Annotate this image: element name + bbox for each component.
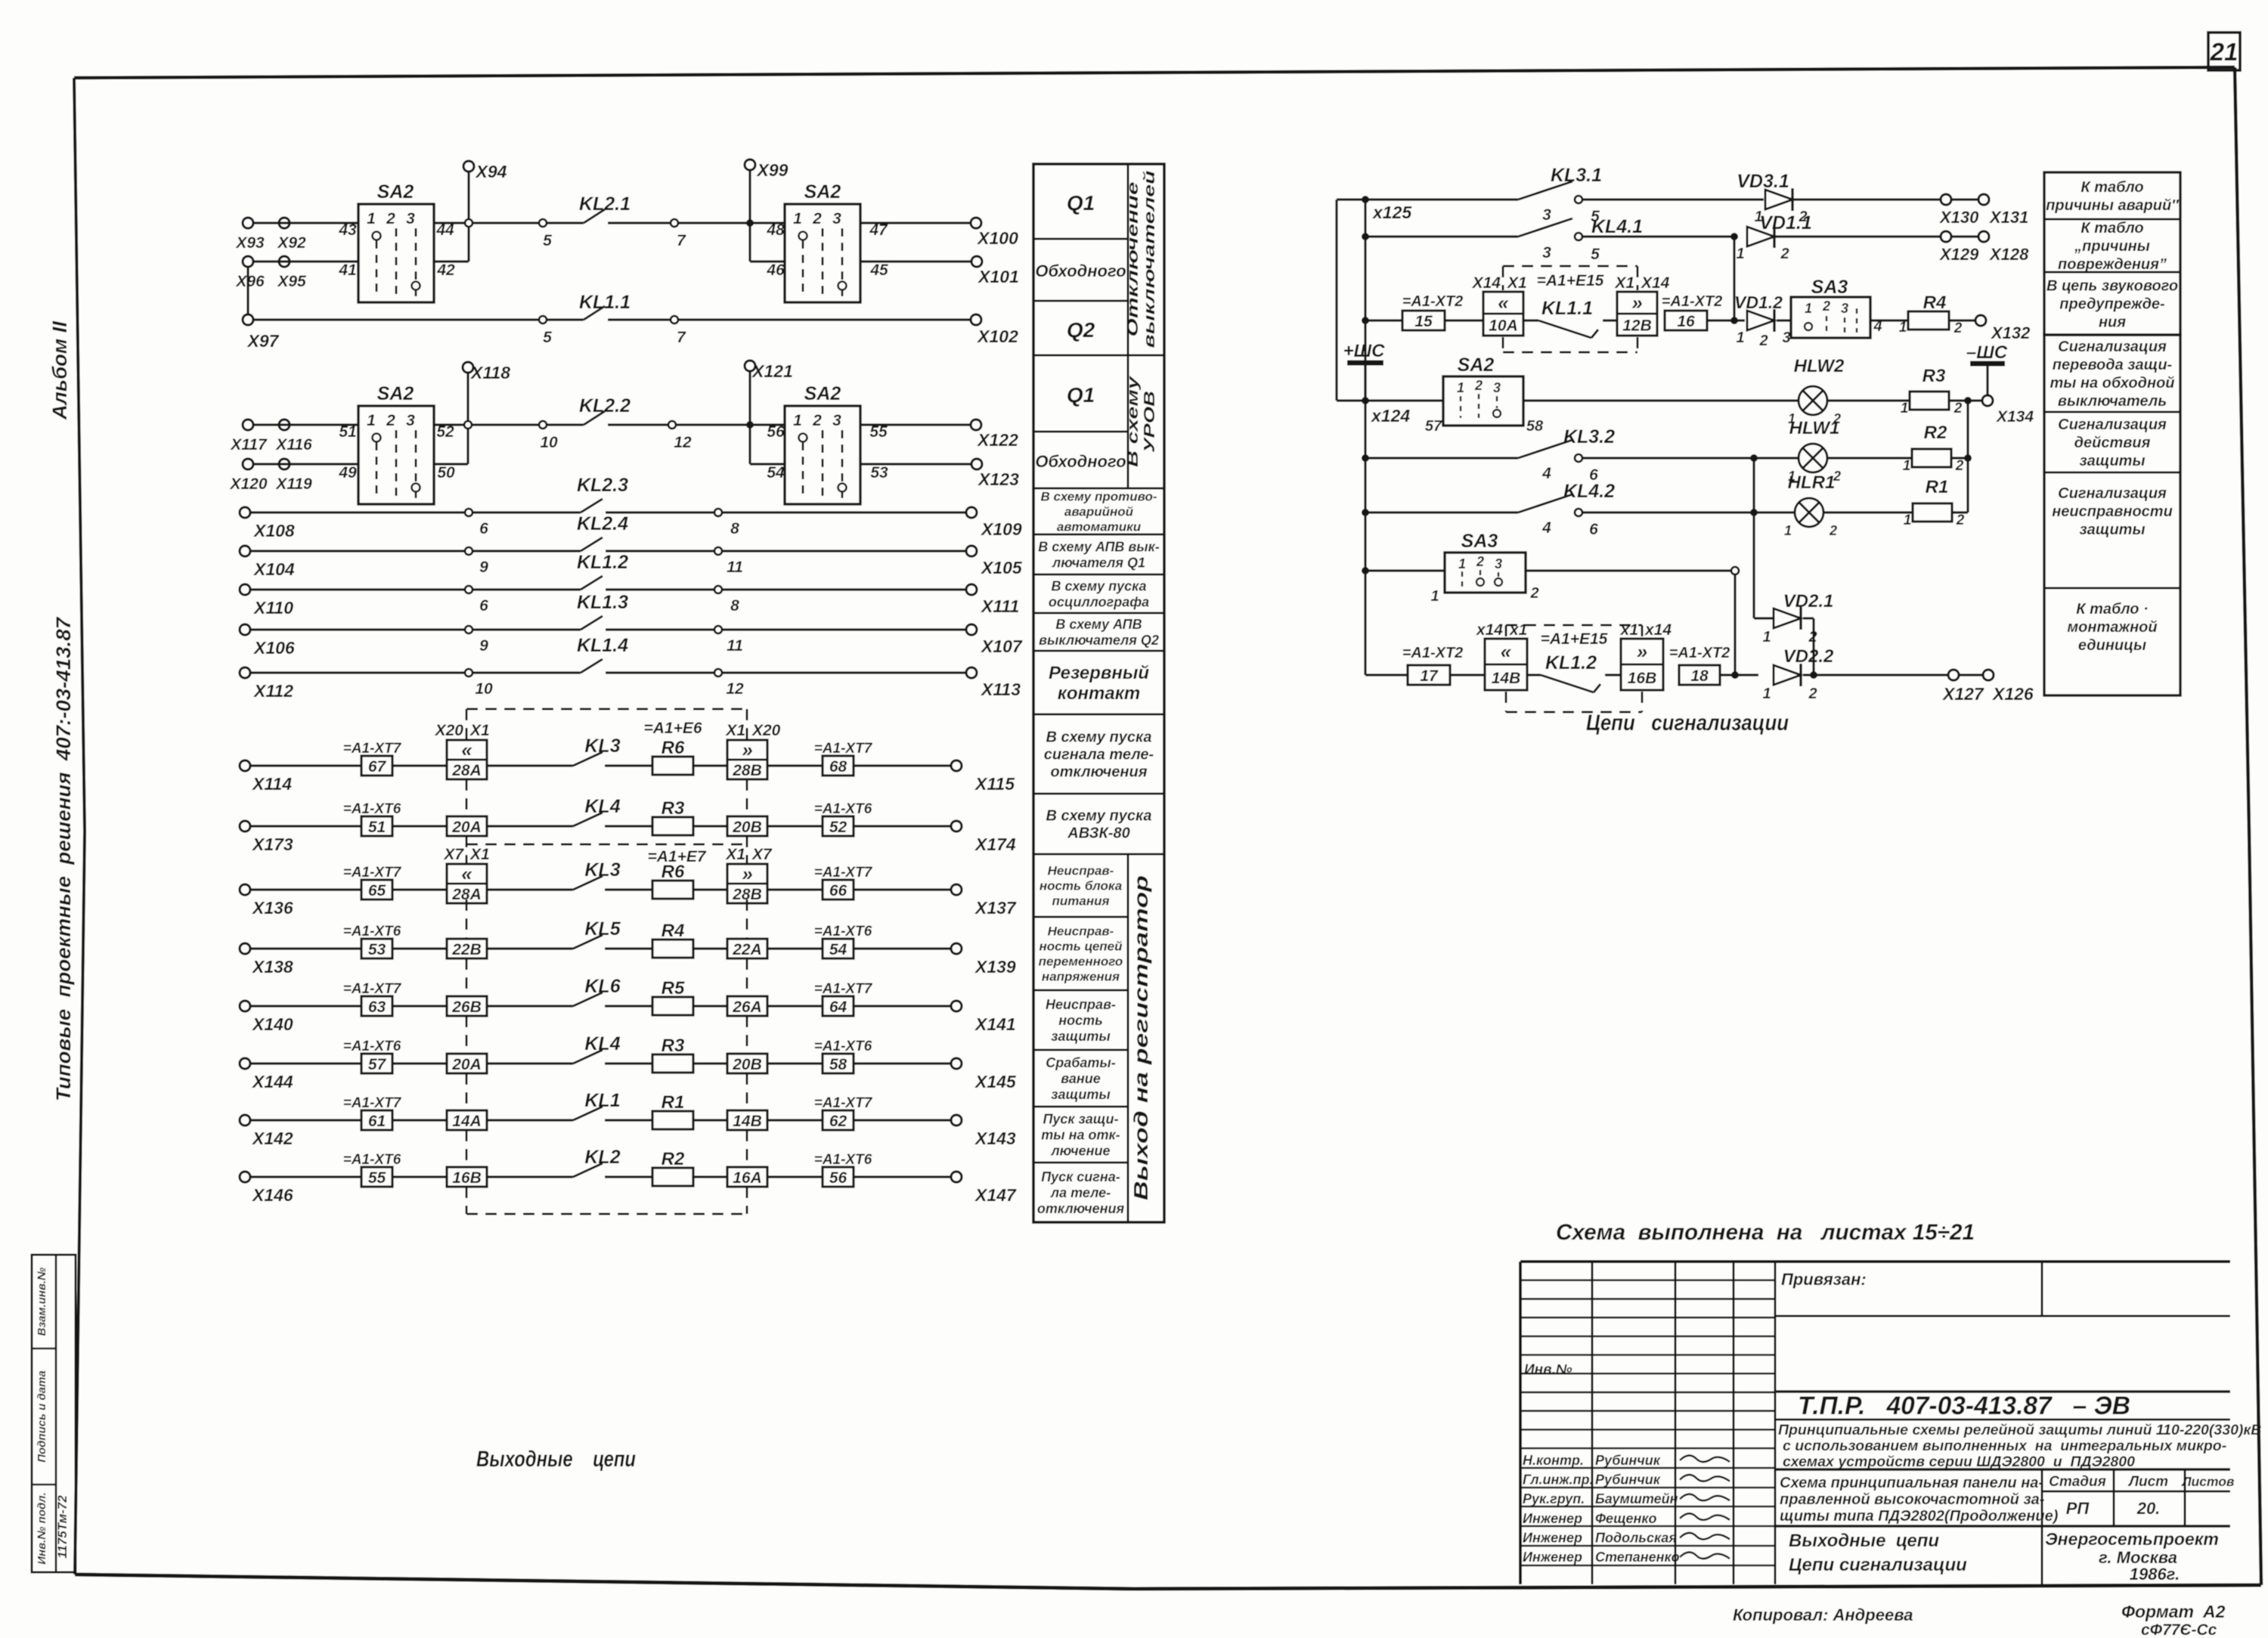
svg-text:4: 4	[1541, 519, 1551, 537]
svg-text:1: 1	[793, 210, 802, 228]
dashed link between 28A and 20A	[466, 779, 747, 816]
wire to tag 64	[767, 1005, 823, 1007]
svg-text:X145: X145	[974, 1072, 1017, 1091]
svg-text:неисправности: неисправности	[2052, 503, 2173, 520]
contact KL2.3	[465, 475, 739, 537]
svg-text:KL2.2: KL2.2	[579, 395, 631, 416]
terminal X126	[1941, 670, 2034, 704]
svg-text:2: 2	[1955, 458, 1964, 474]
svg-text:X7: X7	[751, 846, 773, 863]
svg-text:R4: R4	[661, 921, 685, 941]
svg-text:17: 17	[1420, 667, 1439, 685]
wire VD2.1 branch	[1754, 458, 1773, 618]
svg-text:=A1-XT7: =A1-XT7	[343, 741, 402, 757]
tag label =A1-XT7 65	[343, 865, 402, 900]
wire contact to X111	[722, 588, 966, 590]
svg-text:1: 1	[367, 210, 376, 228]
contact KL4	[573, 1033, 621, 1064]
svg-text:ность блока: ность блока	[1039, 878, 1122, 893]
svg-text:9: 9	[479, 637, 488, 655]
footer stamp	[2141, 1621, 2217, 1638]
diode VD1.1	[1736, 212, 1811, 262]
wire resistor to tag 20B	[693, 825, 727, 827]
connector tag 16A	[727, 1167, 767, 1187]
svg-text:X99: X99	[756, 160, 789, 180]
resistor R6	[652, 862, 693, 899]
svg-text:Рубинчик: Рубинчик	[1595, 1472, 1661, 1488]
svg-text:58: 58	[829, 1056, 847, 1073]
terminal X119	[275, 459, 312, 493]
contact KL3	[573, 859, 621, 890]
svg-text:7: 7	[677, 329, 686, 346]
svg-text:20.: 20.	[2136, 1499, 2161, 1518]
svg-text:В схему противо-: В схему противо-	[1040, 489, 1157, 503]
wire to connector 14B	[1450, 673, 1485, 676]
wire contact to X102	[678, 318, 971, 320]
wire to tag 54	[767, 947, 823, 949]
wire to contact KL4	[487, 825, 573, 827]
svg-text:защиты: защиты	[2079, 522, 2145, 538]
svg-text:Инженер: Инженер	[1523, 1530, 1582, 1545]
svg-text:KL2.4: KL2.4	[577, 513, 628, 534]
svg-text:52: 52	[829, 819, 847, 836]
svg-text:предупрежде-: предупрежде-	[2059, 296, 2165, 313]
wire R2 to chain	[1951, 457, 1968, 459]
wire contact to HLR1	[1583, 511, 1795, 513]
svg-text:–ШС: –ШС	[1966, 342, 2008, 363]
svg-text:монтажной: монтажной	[2067, 619, 2157, 636]
svg-text:осциллографа: осциллографа	[1049, 594, 1149, 609]
terminal X100	[971, 218, 1018, 248]
node VD2.1 branch crossing	[1750, 509, 1758, 516]
connector tag 14B with arrow	[1476, 621, 1527, 690]
svg-text:X118: X118	[469, 363, 510, 382]
wire tag18 to VD2.2	[1720, 673, 1758, 676]
svg-text:2: 2	[1954, 320, 1963, 336]
svg-text:1: 1	[367, 412, 376, 429]
connector tag 22A	[727, 939, 767, 958]
connector tag 28B with arrow	[725, 846, 773, 903]
svg-text:ность цепей: ность цепей	[1039, 939, 1123, 953]
wire resistor to tag 16A	[693, 1175, 727, 1178]
wire X117 to SA2	[253, 423, 358, 426]
connector tag 26B	[447, 996, 487, 1016]
svg-text:SA3: SA3	[1811, 277, 1848, 298]
svg-text:Гл.инж.пр.: Гл.инж.пр.	[1523, 1472, 1594, 1488]
svg-text:=A1+E15: =A1+E15	[1541, 630, 1608, 648]
terminal X147	[951, 1172, 1017, 1205]
wire R4 to X132	[1949, 319, 1975, 321]
svg-text:1175Тм-72: 1175Тм-72	[55, 1495, 70, 1559]
terminal X110	[240, 584, 293, 618]
svg-text:схемах устройств серии ШДЭ2800: схемах устройств серии ШДЭ2800 и ПДЭ2800	[1783, 1454, 2135, 1470]
terminal X127	[1948, 670, 1959, 680]
svg-text:12: 12	[674, 434, 692, 451]
wire to contact KL3	[487, 764, 573, 766]
svg-text:Энергосетьпроект: Энергосетьпроект	[2045, 1529, 2219, 1549]
svg-text:X129: X129	[1938, 245, 1979, 264]
terminal X140	[240, 1001, 293, 1034]
svg-text:Формат: Формат	[2121, 1602, 2194, 1621]
wire to contact KL5	[487, 947, 573, 949]
svg-text:X147: X147	[974, 1185, 1017, 1205]
terminal X128	[1938, 231, 2029, 264]
contact KL1.4	[465, 635, 744, 698]
svg-text:X138: X138	[251, 957, 293, 977]
svg-text:KL1.4: KL1.4	[577, 635, 628, 656]
wire resistor to tag 20B	[693, 1062, 727, 1064]
wire R3 to X134 node	[1949, 399, 1982, 401]
svg-text:X137: X137	[974, 898, 1017, 918]
svg-text:Н.контр.: Н.контр.	[1523, 1453, 1584, 1468]
contact KL3	[573, 735, 621, 766]
svg-text:22A: 22A	[732, 941, 762, 958]
svg-text:KL3: KL3	[584, 859, 620, 881]
svg-text:SA2: SA2	[804, 181, 841, 203]
resistor R3	[652, 1036, 693, 1073]
wire to block tag 22B	[392, 947, 447, 949]
wire to tag 62	[767, 1119, 823, 1121]
svg-text:11: 11	[727, 637, 743, 655]
svg-text:16B: 16B	[1628, 670, 1657, 687]
svg-text:43: 43	[338, 221, 357, 239]
terminal X118	[463, 362, 510, 382]
svg-text:X141: X141	[974, 1014, 1016, 1034]
wire contact to resistor R6	[605, 764, 652, 766]
contact KL4.2	[1518, 481, 1615, 538]
svg-text:KL1: KL1	[584, 1090, 620, 1111]
svg-text:Сигнализация: Сигнализация	[2058, 485, 2167, 502]
wire SA3 to branch node	[1526, 569, 1733, 571]
svg-text:X111: X111	[980, 596, 1019, 616]
svg-text:=A1-XT7: =A1-XT7	[343, 1095, 402, 1111]
svg-text:56: 56	[829, 1169, 847, 1187]
svg-text:X130: X130	[1938, 208, 1979, 227]
svg-text:В схему пуска: В схему пуска	[1046, 729, 1151, 746]
sheet number box 21	[2208, 33, 2240, 70]
svg-text:R3: R3	[661, 798, 685, 819]
svg-text:=A1-XT2: =A1-XT2	[1662, 293, 1723, 310]
svg-text:X96: X96	[235, 273, 265, 290]
svg-text:1: 1	[793, 412, 802, 429]
terminal X132	[1975, 315, 2031, 342]
bus vertical main	[1364, 200, 1366, 675]
svg-text:В схему АПВ: В схему АПВ	[1055, 617, 1142, 632]
svg-text:2: 2	[1954, 401, 1963, 416]
svg-text:АВЗК-80: АВЗК-80	[1067, 825, 1129, 842]
svg-text:Лист: Лист	[2127, 1474, 2168, 1490]
svg-text:3: 3	[832, 412, 841, 429]
wire tag to X174	[854, 825, 951, 827]
svg-text:=A1+E7: =A1+E7	[647, 848, 706, 865]
svg-text:X146: X146	[251, 1185, 293, 1205]
svg-text:3: 3	[1782, 330, 1790, 346]
svg-text:X140: X140	[251, 1014, 293, 1034]
wire X114 to tag 67	[250, 764, 361, 766]
connector tag 20B	[727, 1054, 767, 1073]
bottom-left margin table	[32, 1255, 76, 1572]
svg-text:21: 21	[2210, 38, 2239, 66]
wire X112 to contact	[250, 671, 469, 673]
svg-text:65: 65	[368, 882, 386, 900]
svg-text:56: 56	[767, 423, 785, 441]
node X125	[1362, 196, 1412, 222]
switch SA2 (first)	[338, 181, 455, 302]
svg-text:X112: X112	[253, 681, 293, 701]
svg-text:В схему пуска: В схему пуска	[1051, 578, 1146, 593]
svg-text:VD3.1: VD3.1	[1737, 171, 1789, 192]
svg-text:X128: X128	[1988, 245, 2029, 264]
switch SA2 (signal)	[1425, 355, 1544, 435]
svg-text:62: 62	[829, 1113, 847, 1130]
svg-text:X105: X105	[980, 558, 1023, 577]
svg-text:20B: 20B	[732, 1056, 762, 1073]
svg-text:X1: X1	[1614, 274, 1634, 292]
svg-text:А2: А2	[2202, 1602, 2226, 1621]
bus +supply vertical (left)	[1335, 200, 1337, 401]
wire lamp to R3	[1827, 399, 1910, 401]
svg-text:KL4.1: KL4.1	[1591, 216, 1643, 237]
wire X106 to contact	[250, 628, 469, 630]
wire to block tag 28A	[392, 764, 447, 766]
resistor R5	[652, 978, 693, 1015]
tag label =A1-XT7 66	[814, 865, 873, 900]
svg-text:63: 63	[368, 999, 386, 1016]
svg-text:Инженер: Инженер	[1523, 1511, 1582, 1526]
svg-text:2: 2	[1956, 512, 1965, 528]
svg-text:X102: X102	[976, 327, 1018, 346]
svg-text:X1: X1	[469, 722, 490, 739]
svg-text:61: 61	[368, 1113, 386, 1130]
svg-text:10A: 10A	[1489, 317, 1518, 335]
dashed enclosure =A1+E15 (upper)	[1503, 266, 1637, 352]
wire tag to X147	[854, 1175, 951, 1178]
svg-text:1986г.: 1986г.	[2130, 1565, 2180, 1584]
svg-text:54: 54	[767, 464, 785, 481]
svg-text:Копировал: Андреева: Копировал: Андреева	[1733, 1605, 1913, 1624]
wire X110 to contact	[250, 588, 469, 590]
contact KL1.2	[465, 552, 739, 615]
wire SA2 to lamp HLW2	[1523, 399, 1799, 401]
wire to block tag 28A	[392, 888, 447, 890]
wire resistor to tag 28B	[693, 764, 727, 766]
wire X94 down to node	[467, 172, 469, 219]
svg-text:26A: 26A	[732, 999, 762, 1016]
resistor R3	[1901, 366, 1963, 416]
svg-text:Инженер: Инженер	[1523, 1550, 1582, 1565]
svg-text:=A1-XT7: =A1-XT7	[814, 1095, 873, 1111]
tag label =A1-XT7 63	[343, 981, 402, 1016]
terminal X92	[277, 218, 306, 252]
svg-text:12: 12	[726, 680, 744, 698]
svg-text:57: 57	[1425, 418, 1442, 435]
svg-text:SA2: SA2	[377, 181, 414, 203]
tag =A1-XT2 16	[1662, 293, 1723, 330]
svg-text:50: 50	[437, 464, 455, 481]
connector tag 20A	[447, 816, 487, 836]
connector tag 14A	[447, 1110, 487, 1130]
svg-text:X106: X106	[253, 638, 295, 658]
lamp HLR1	[1784, 472, 1837, 538]
resistor R1	[652, 1092, 693, 1129]
svg-text:=A1+E6: =A1+E6	[643, 720, 702, 737]
wire X97 to contact KL1.1	[253, 318, 543, 320]
svg-text:ты на отк-: ты на отк-	[1041, 1127, 1120, 1142]
svg-text:ность: ность	[1058, 1013, 1103, 1028]
svg-text:»: »	[742, 738, 752, 761]
svg-text:Q1: Q1	[1067, 383, 1095, 407]
wire to block tag 14A	[392, 1119, 447, 1121]
wire X121 down	[750, 371, 785, 464]
svg-text:20A: 20A	[451, 1056, 482, 1073]
dashed link =A1+E6 over row X114	[466, 709, 747, 740]
svg-text:x1: x1	[1509, 621, 1527, 639]
svg-text:причины аварий″: причины аварий″	[2046, 197, 2180, 214]
terminal X96	[235, 256, 265, 290]
svg-text:Пуск сигна-: Пуск сигна-	[1041, 1169, 1120, 1184]
tag =A1-XT2 18	[1669, 645, 1730, 685]
node bus row S3	[1362, 317, 1369, 324]
svg-text:51: 51	[339, 423, 356, 441]
svg-text:В схему АПВ вык-: В схему АПВ вык-	[1038, 539, 1160, 554]
svg-text:1: 1	[1762, 629, 1771, 646]
tag label =A1-XT6 52	[814, 801, 872, 836]
node bus row S2	[1362, 233, 1369, 240]
svg-text:автоматики: автоматики	[1057, 519, 1142, 534]
node bus row S6	[1362, 509, 1369, 516]
svg-text:3: 3	[1495, 556, 1502, 571]
tag label =A1-XT6 54	[814, 924, 872, 958]
svg-text:щиты типа ПДЭ2802(Продолжение): щиты типа ПДЭ2802(Продолжение)	[1780, 1508, 2059, 1525]
wire tag to X143	[854, 1119, 951, 1121]
wire contact to X99 node	[678, 221, 785, 224]
wire tag to X145	[854, 1062, 951, 1064]
svg-text:X115: X115	[974, 774, 1015, 794]
node junction X94/row	[465, 219, 472, 227]
svg-text:Сигнализация: Сигнализация	[2058, 339, 2167, 355]
svg-text:единицы: единицы	[2078, 637, 2146, 654]
svg-text:В цепь звукового: В цепь звукового	[2046, 278, 2178, 295]
wire resistor to tag 14B	[693, 1119, 727, 1121]
svg-text:KL3.2: KL3.2	[1563, 426, 1615, 447]
switch SA3 (lower)	[1430, 531, 1538, 605]
svg-text:+ШС: +ШС	[1343, 341, 1386, 361]
tag label =A1-XT7 61	[343, 1095, 402, 1130]
svg-text:переменного: переменного	[1039, 954, 1123, 968]
wire X136 to tag 65	[250, 888, 361, 890]
svg-text:«: «	[461, 738, 472, 761]
svg-text:«: «	[1501, 640, 1512, 663]
switch SA2 (third)	[338, 383, 455, 504]
svg-text:=A1-XT6: =A1-XT6	[343, 1039, 401, 1054]
svg-text:X94: X94	[475, 162, 507, 181]
svg-text:К табло: К табло	[2081, 179, 2143, 196]
svg-text:1: 1	[1904, 512, 1912, 528]
wire to block tag 20A	[392, 825, 447, 827]
connector tag 22B	[447, 939, 487, 958]
svg-text:X1: X1	[469, 846, 490, 863]
contact KL3.1	[1518, 165, 1602, 225]
svg-text:Рубинчик: Рубинчик	[1595, 1453, 1661, 1468]
svg-text:Неисправ-: Неисправ-	[1046, 997, 1116, 1012]
terminal X136	[240, 884, 293, 918]
svg-text:R2: R2	[1924, 423, 1947, 443]
wire tag16 to VD1.2	[1707, 319, 1745, 321]
svg-text:46: 46	[766, 262, 785, 279]
terminal X94	[463, 161, 507, 181]
svg-text:X127: X127	[1941, 684, 1984, 704]
wire VD1.1 anode down to row S3	[1733, 237, 1735, 320]
tag label =A1-XT7 64	[814, 981, 873, 1016]
node R-chain top	[1964, 397, 1972, 404]
svg-text:KL1.1: KL1.1	[579, 292, 631, 313]
connector tag 26A	[727, 996, 767, 1016]
wire SA2 pin44 to contact KL2.1	[434, 221, 543, 224]
svg-text:11: 11	[727, 559, 743, 576]
contact KL2.2	[539, 395, 692, 451]
svg-text:14A: 14A	[452, 1113, 482, 1130]
svg-text:6: 6	[479, 597, 488, 615]
svg-text:=A1-XT7: =A1-XT7	[814, 981, 873, 997]
svg-text:Инв.№: Инв.№	[1524, 1362, 1572, 1378]
svg-text:лючение: лючение	[1050, 1143, 1110, 1158]
switch SA2 (fourth)	[767, 383, 888, 504]
node R-chain mid	[1964, 454, 1972, 462]
svg-text:KL4: KL4	[584, 1033, 620, 1054]
margin text Album II	[48, 320, 71, 420]
svg-text:Баумштейн: Баумштейн	[1595, 1491, 1678, 1506]
svg-text:»: »	[742, 862, 752, 885]
wire branch down to row S8	[1734, 574, 1736, 675]
tag label =A1-XT6 58	[814, 1039, 872, 1073]
svg-text:x14: x14	[1644, 621, 1672, 639]
svg-text:9: 9	[479, 559, 488, 576]
node X121/row	[746, 421, 754, 429]
svg-text:1: 1	[1784, 523, 1792, 538]
wire diode to X129	[1775, 235, 1941, 237]
terminal X138	[240, 943, 293, 977]
wire SA3 to R4	[1870, 319, 1908, 321]
wire R1 to chain corner	[1952, 511, 1968, 513]
terminal X108	[240, 507, 295, 540]
svg-text:Сигнализация: Сигнализация	[2058, 416, 2167, 433]
svg-text:X114: X114	[251, 774, 292, 794]
svg-text:=A1-XT6: =A1-XT6	[814, 1152, 872, 1168]
wire X124 to SA2	[1365, 399, 1443, 401]
wire to diode VD3.1	[1583, 198, 1764, 200]
svg-text:20B: 20B	[732, 819, 762, 836]
svg-text:Выходные цепи: Выходные цепи	[476, 1447, 636, 1472]
svg-text:действия: действия	[2074, 435, 2151, 451]
resistor R3	[652, 798, 693, 835]
svg-text:X1: X1	[1507, 274, 1527, 292]
svg-text:45: 45	[869, 262, 888, 279]
wire X93 to SA2	[253, 221, 358, 224]
svg-text:Обходного: Обходного	[1035, 452, 1126, 471]
wire SA2 pin45 to X101	[861, 260, 971, 262]
connector tag 14B	[727, 1110, 767, 1130]
svg-text:=A1-XT6: =A1-XT6	[814, 1039, 872, 1054]
svg-text:68: 68	[829, 758, 847, 776]
svg-text:2: 2	[1780, 246, 1789, 262]
svg-text:=A1-XT2: =A1-XT2	[1669, 645, 1730, 661]
resistor R2	[1903, 423, 1964, 474]
svg-text:сигнала теле-: сигнала теле-	[1044, 747, 1154, 763]
terminal X120	[229, 459, 267, 493]
svg-text:1: 1	[1458, 556, 1466, 571]
terminal X137	[951, 884, 1017, 918]
diode VD1.2	[1734, 293, 1791, 349]
